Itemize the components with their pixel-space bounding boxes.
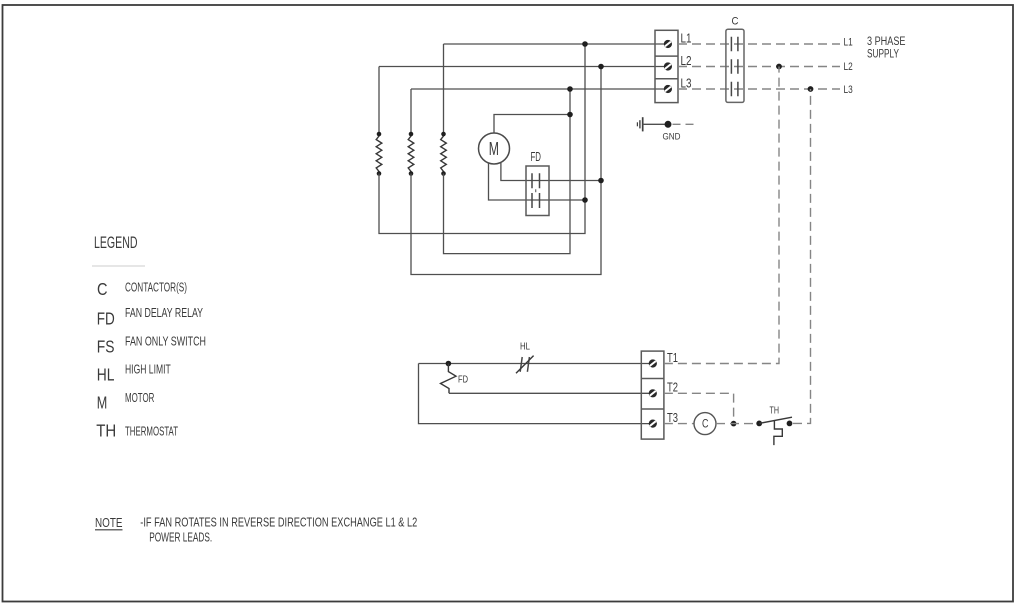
- wire TH dashed, rises to L3 tap: [793, 89, 811, 423]
- svg-text:C: C: [97, 279, 108, 299]
- wire T3 dashed to coil: [664, 423, 694, 425]
- terminal screw T3: [649, 420, 657, 428]
- motor M1: [479, 133, 510, 164]
- wire L2 dashed to supply: [678, 66, 840, 68]
- svg-text:HL: HL: [97, 365, 115, 385]
- wire T2 dashed: [664, 393, 734, 423]
- FD contact link: [535, 189, 537, 192]
- svg-text:CONTACTOR(S): CONTACTOR(S): [125, 279, 187, 294]
- fan delay relay FD box: [526, 166, 549, 216]
- svg-text:GND: GND: [663, 132, 681, 142]
- wire left return to T3: [419, 364, 651, 424]
- node L3-riser junction: [567, 86, 573, 92]
- node FD tap: [446, 361, 452, 367]
- svg-text:THERMOSTAT: THERMOSTAT: [125, 423, 178, 438]
- wire resistor2 bottom return: [411, 67, 601, 275]
- FD upper contact: [532, 173, 540, 188]
- heater resistor on L1 drop: [441, 134, 447, 174]
- svg-text:L2: L2: [844, 61, 853, 73]
- svg-text:C: C: [702, 419, 709, 431]
- svg-text:L3: L3: [681, 76, 692, 91]
- wire L1 left drop: [443, 44, 445, 134]
- wire motor lower-left lead: [489, 163, 586, 200]
- wire T1 line: [419, 363, 651, 365]
- heater resistor on L2 drop: [376, 134, 382, 174]
- svg-text:M: M: [97, 393, 108, 413]
- node L1-riser junction: [582, 41, 588, 47]
- wire GND dashed stub: [673, 123, 695, 125]
- node T2-T3 junction: [731, 421, 737, 427]
- svg-text:L2: L2: [681, 53, 692, 68]
- node GND: [665, 121, 672, 128]
- svg-text:FD: FD: [458, 374, 468, 386]
- wire coil to TH dashed: [716, 423, 756, 425]
- svg-text:NOTE: NOTE: [95, 515, 123, 530]
- svg-text:-IF FAN ROTATES IN REVERSE DIR: -IF FAN ROTATES IN REVERSE DIRECTION EXC…: [140, 514, 417, 529]
- terminal screw L1: [664, 40, 672, 48]
- svg-text:POWER LEADS.: POWER LEADS.: [149, 530, 212, 545]
- svg-text:FS: FS: [97, 337, 115, 357]
- svg-text:3 PHASE: 3 PHASE: [867, 36, 906, 48]
- wire resistor3 bottom return: [444, 89, 571, 254]
- terminal screw L3: [664, 85, 672, 93]
- svg-text:M: M: [489, 139, 499, 159]
- terminal screw T2: [649, 389, 657, 397]
- terminal block L1-L3: [655, 30, 678, 102]
- node L2-riser junction: [598, 64, 604, 70]
- svg-text:HL: HL: [520, 341, 530, 353]
- svg-text:FD: FD: [531, 150, 542, 164]
- high limit switch HL: [516, 356, 534, 374]
- wire T2 line: [449, 392, 650, 394]
- svg-text:SUPPLY: SUPPLY: [867, 49, 899, 61]
- wire motor lower-right lead: [501, 163, 601, 181]
- svg-text:FAN ONLY SWITCH: FAN ONLY SWITCH: [125, 333, 206, 348]
- ground symbol: [637, 117, 664, 131]
- wire L3 horizontal to terminal: [411, 88, 664, 90]
- svg-text:L3: L3: [844, 84, 853, 96]
- svg-text:L1: L1: [681, 31, 692, 46]
- svg-text:TH: TH: [96, 421, 116, 441]
- svg-text:FAN DELAY RELAY: FAN DELAY RELAY: [125, 305, 203, 320]
- FD lower contact: [532, 193, 540, 208]
- thermostat TH: [756, 417, 792, 445]
- svg-text:C: C: [732, 16, 739, 28]
- wire L3 dashed to supply: [678, 88, 840, 90]
- node FD upper contact junction: [598, 178, 604, 184]
- wire motor top lead: [494, 115, 570, 134]
- wire resistor1 bottom return: [379, 44, 585, 234]
- svg-text:T3: T3: [667, 411, 678, 425]
- node FD lower contact junction: [582, 197, 588, 203]
- svg-text:T2: T2: [667, 381, 678, 395]
- contactor C main contacts: [726, 29, 744, 102]
- wire T1 dashed to control drop, rises to L2 tap: [664, 67, 779, 364]
- node L2 control tap: [776, 64, 782, 70]
- wire L3 left drop: [410, 89, 412, 134]
- wire L2 left drop: [378, 67, 380, 135]
- fan delay relay FD control element: [441, 364, 457, 394]
- terminal screw L2: [664, 62, 672, 70]
- svg-text:MOTOR: MOTOR: [125, 390, 154, 405]
- svg-text:FD: FD: [97, 309, 115, 329]
- wire L2 horizontal to terminal: [379, 66, 664, 68]
- wire L1 horizontal to terminal: [444, 43, 665, 45]
- node L3 control tap: [808, 86, 814, 92]
- svg-text:LEGEND: LEGEND: [94, 234, 138, 252]
- terminal block T1-T3: [641, 351, 664, 439]
- wire L1 dashed to supply: [678, 43, 840, 45]
- terminal screw T1: [649, 359, 657, 367]
- svg-text:TH: TH: [770, 404, 780, 416]
- contactor coil C: [694, 413, 716, 435]
- svg-text:HIGH LIMIT: HIGH LIMIT: [125, 361, 171, 376]
- svg-text:L1: L1: [844, 37, 853, 49]
- node motor top junction: [567, 112, 573, 118]
- heater resistor on L3 drop: [408, 134, 414, 174]
